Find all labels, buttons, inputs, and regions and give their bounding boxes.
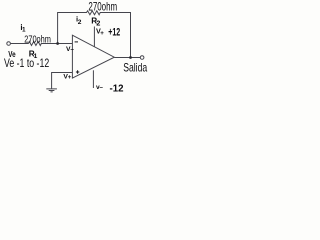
svg-text:+: + <box>100 30 104 37</box>
svg-text:−: − <box>99 84 103 91</box>
svg-text:Ve -1 to -12: Ve -1 to -12 <box>4 56 49 70</box>
svg-text:270ohm: 270ohm <box>88 1 117 14</box>
svg-text:+: + <box>68 74 72 81</box>
svg-text:−: − <box>70 47 74 54</box>
svg-text:1: 1 <box>22 26 26 33</box>
svg-text:-12: -12 <box>110 83 124 94</box>
svg-text:Salida: Salida <box>123 61 147 74</box>
svg-text:+12: +12 <box>108 26 120 38</box>
svg-text:2: 2 <box>78 19 82 26</box>
svg-text:270ohm: 270ohm <box>24 34 51 46</box>
